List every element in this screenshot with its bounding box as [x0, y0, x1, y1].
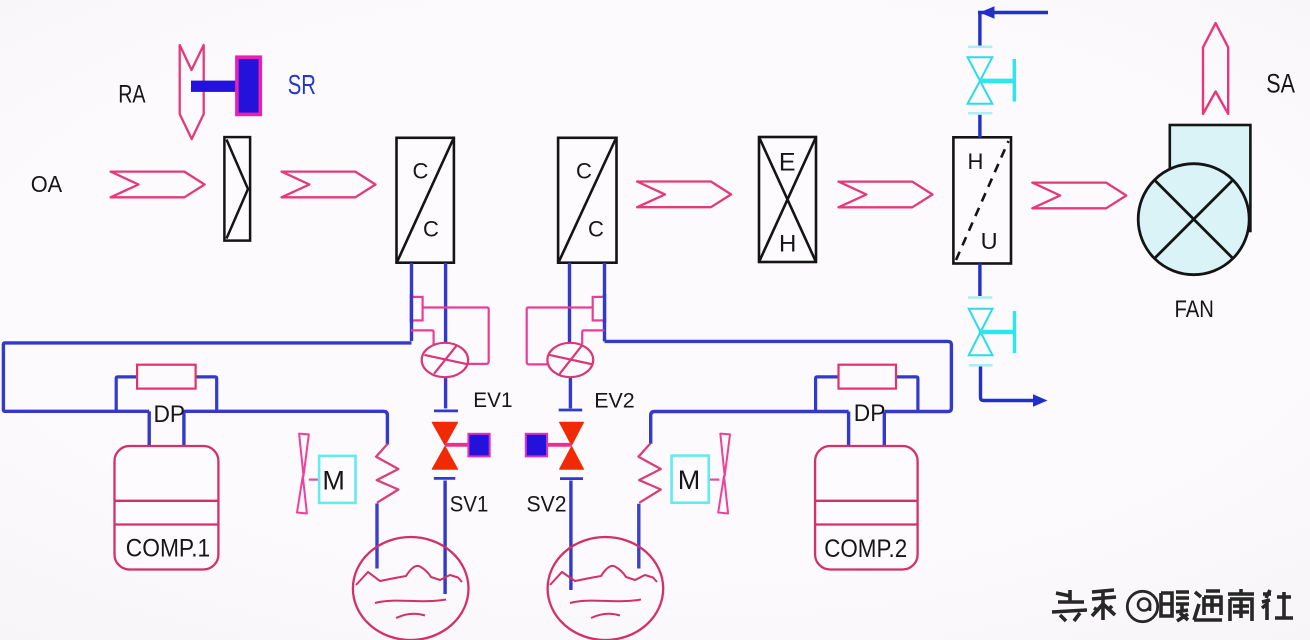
flange tick below SV2 — [560, 477, 583, 480]
solenoid valve SV1 (red) — [432, 422, 457, 469]
cooling coil 2 C/C — [558, 138, 616, 263]
SV1 stem — [445, 443, 468, 447]
wire humidifier drain down — [978, 264, 981, 297]
svg-text:DP: DP — [154, 401, 186, 428]
wire COMP.2 suction drop — [847, 412, 850, 447]
wire coil2 right tube down to header — [603, 263, 606, 341]
glyph nan — [1228, 589, 1254, 621]
heat exchanger E/H — [759, 137, 816, 262]
svg-text:SA: SA — [1266, 69, 1295, 99]
capillary EV2 — [527, 308, 593, 365]
wire drain outlet with right arrow — [981, 367, 1036, 401]
wire EV1 ellipse to flange — [444, 377, 447, 409]
airflow arrow 2 (filter to coil 1) — [282, 172, 376, 198]
svg-text:EV1: EV1 — [473, 388, 512, 412]
airflow arrow 5 (H/U to fan) — [1032, 183, 1126, 209]
svg-text:OA: OA — [31, 171, 63, 197]
svg-text:COMP.2: COMP.2 — [824, 535, 907, 563]
svg-text:H: H — [779, 231, 796, 258]
wire COMP.1 suction drop — [147, 411, 150, 446]
wire SV1 down into evaporator — [443, 481, 446, 595]
glyph tong — [1194, 591, 1222, 620]
wire suction header right run — [605, 341, 952, 443]
RA return-air arrow (down) — [180, 45, 204, 139]
wire COMP.1 discharge drop — [182, 411, 185, 446]
fan duct casing — [1170, 125, 1251, 231]
SV2 solenoid coil box — [526, 434, 547, 457]
svg-text:C: C — [576, 159, 592, 184]
fan blade 1 (propeller) — [297, 434, 309, 514]
svg-text:C: C — [413, 159, 429, 184]
svg-text:H: H — [968, 149, 984, 174]
water waves tank 1 — [356, 566, 462, 618]
valve V1 (cyan globe valve) — [968, 57, 993, 104]
wire water supply up-pipe — [978, 13, 1048, 48]
glyph tiao — [1092, 590, 1116, 620]
wire DP2 sensor loop — [816, 377, 918, 412]
glyph at — [1127, 591, 1157, 621]
svg-text:SR: SR — [288, 69, 316, 100]
wire SV2 down into evaporator — [569, 481, 572, 591]
flange tick below valve V1 — [968, 112, 992, 115]
airflow arrow 1 (OA to filter) — [111, 172, 205, 198]
sensing bulb EV1 — [411, 297, 423, 321]
motor M2 box — [672, 456, 709, 503]
motor M1 box — [319, 456, 355, 503]
svg-text:M: M — [322, 466, 345, 496]
glyph tou — [1052, 590, 1087, 621]
wire tube over bulb EV1 — [410, 294, 413, 323]
expansion valve EV2 ellipse — [547, 343, 593, 377]
svg-text:C: C — [423, 216, 439, 241]
evaporator tank 2 — [548, 537, 664, 640]
wire coil1 liquid tube (EV1 branch upper) — [444, 263, 447, 344]
wire suction header left run — [3, 343, 411, 445]
wire R2 to evaporator — [637, 504, 640, 569]
wire coil2 liquid tube (EV2 branch upper) — [568, 263, 571, 344]
svg-text:FAN: FAN — [1175, 296, 1214, 323]
wire COMP.2 discharge drop — [883, 412, 886, 447]
glyph she — [1262, 590, 1293, 620]
airflow arrow 3 (coil 2 to E/H) — [637, 182, 731, 208]
svg-text:SV1: SV1 — [450, 491, 489, 516]
wire R1 to evaporator — [375, 504, 378, 569]
capillary EV1 — [423, 308, 489, 364]
humidifier H/U — [953, 137, 1011, 263]
compressor COMP.1 — [115, 446, 219, 570]
equalizer line EV2 — [582, 330, 604, 344]
svg-text:RA: RA — [118, 80, 146, 108]
solenoid valve SV2 (red) — [560, 422, 584, 469]
water pipe arrowhead (left) — [980, 6, 995, 18]
SV1 solenoid coil box — [468, 434, 489, 457]
compressor COMP.2 — [815, 446, 918, 570]
fan FAN impeller circle — [1138, 164, 1249, 275]
svg-text:DP: DP — [854, 400, 886, 427]
wire DP1 sensor loop — [116, 377, 217, 411]
flange tick above SV1 — [434, 409, 458, 412]
heater resistor R1 zigzag — [376, 444, 398, 503]
svg-text:E: E — [779, 148, 796, 176]
flange tick below valve V2 — [969, 364, 993, 367]
sensor DP2 — [839, 365, 897, 389]
svg-text:EV2: EV2 — [594, 388, 635, 412]
damper SR blue shaft bar — [191, 81, 239, 92]
svg-text:U: U — [981, 228, 998, 254]
flange tick below SV1 — [434, 477, 455, 480]
equalizer line EV1 — [411, 330, 434, 344]
SA supply-air arrow (up) — [1203, 23, 1228, 114]
sensing bulb EV2 — [593, 297, 605, 321]
wire tube over bulb EV2 — [603, 294, 606, 323]
water waves tank 2 — [550, 566, 657, 618]
flange tick above SV2 — [559, 409, 583, 412]
SV2 stem — [547, 443, 572, 447]
dash link M2 to blade2 — [709, 479, 720, 481]
airflow arrow 4 (E/H to H/U) — [839, 182, 933, 208]
valve V2 (cyan globe valve) — [969, 309, 993, 355]
expansion valve EV1 ellipse — [422, 343, 468, 377]
wire valve V1 to humidifier — [978, 115, 981, 138]
evaporator tank 1 — [353, 537, 469, 640]
sensor DP1 — [137, 365, 196, 389]
svg-text:SV2: SV2 — [527, 492, 567, 517]
heater resistor R2 zigzag — [639, 444, 661, 503]
svg-text:C: C — [588, 216, 604, 241]
flange tick above valve V2 — [968, 296, 992, 299]
dash link blade1 to M1 — [309, 479, 319, 481]
svg-text:COMP.1: COMP.1 — [126, 535, 210, 563]
damper SR blade — [237, 57, 260, 114]
svg-text:M: M — [678, 465, 701, 495]
flange tick above valve V1 — [968, 45, 992, 48]
wire EV2 ellipse to flange — [569, 377, 572, 409]
wire coil1 left tube down to suction header — [410, 263, 413, 341]
fan blade 2 (propeller) — [718, 434, 730, 514]
filter F — [224, 137, 250, 241]
cooling coil 1 C/C — [397, 138, 454, 263]
glyph nuan — [1161, 592, 1189, 621]
